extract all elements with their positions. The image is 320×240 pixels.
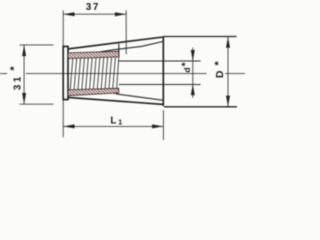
svg-text:d*: d* bbox=[181, 60, 193, 73]
svg-text:37: 37 bbox=[86, 2, 100, 13]
svg-text:D*: D* bbox=[213, 56, 226, 78]
svg-text:L1: L1 bbox=[110, 115, 122, 126]
